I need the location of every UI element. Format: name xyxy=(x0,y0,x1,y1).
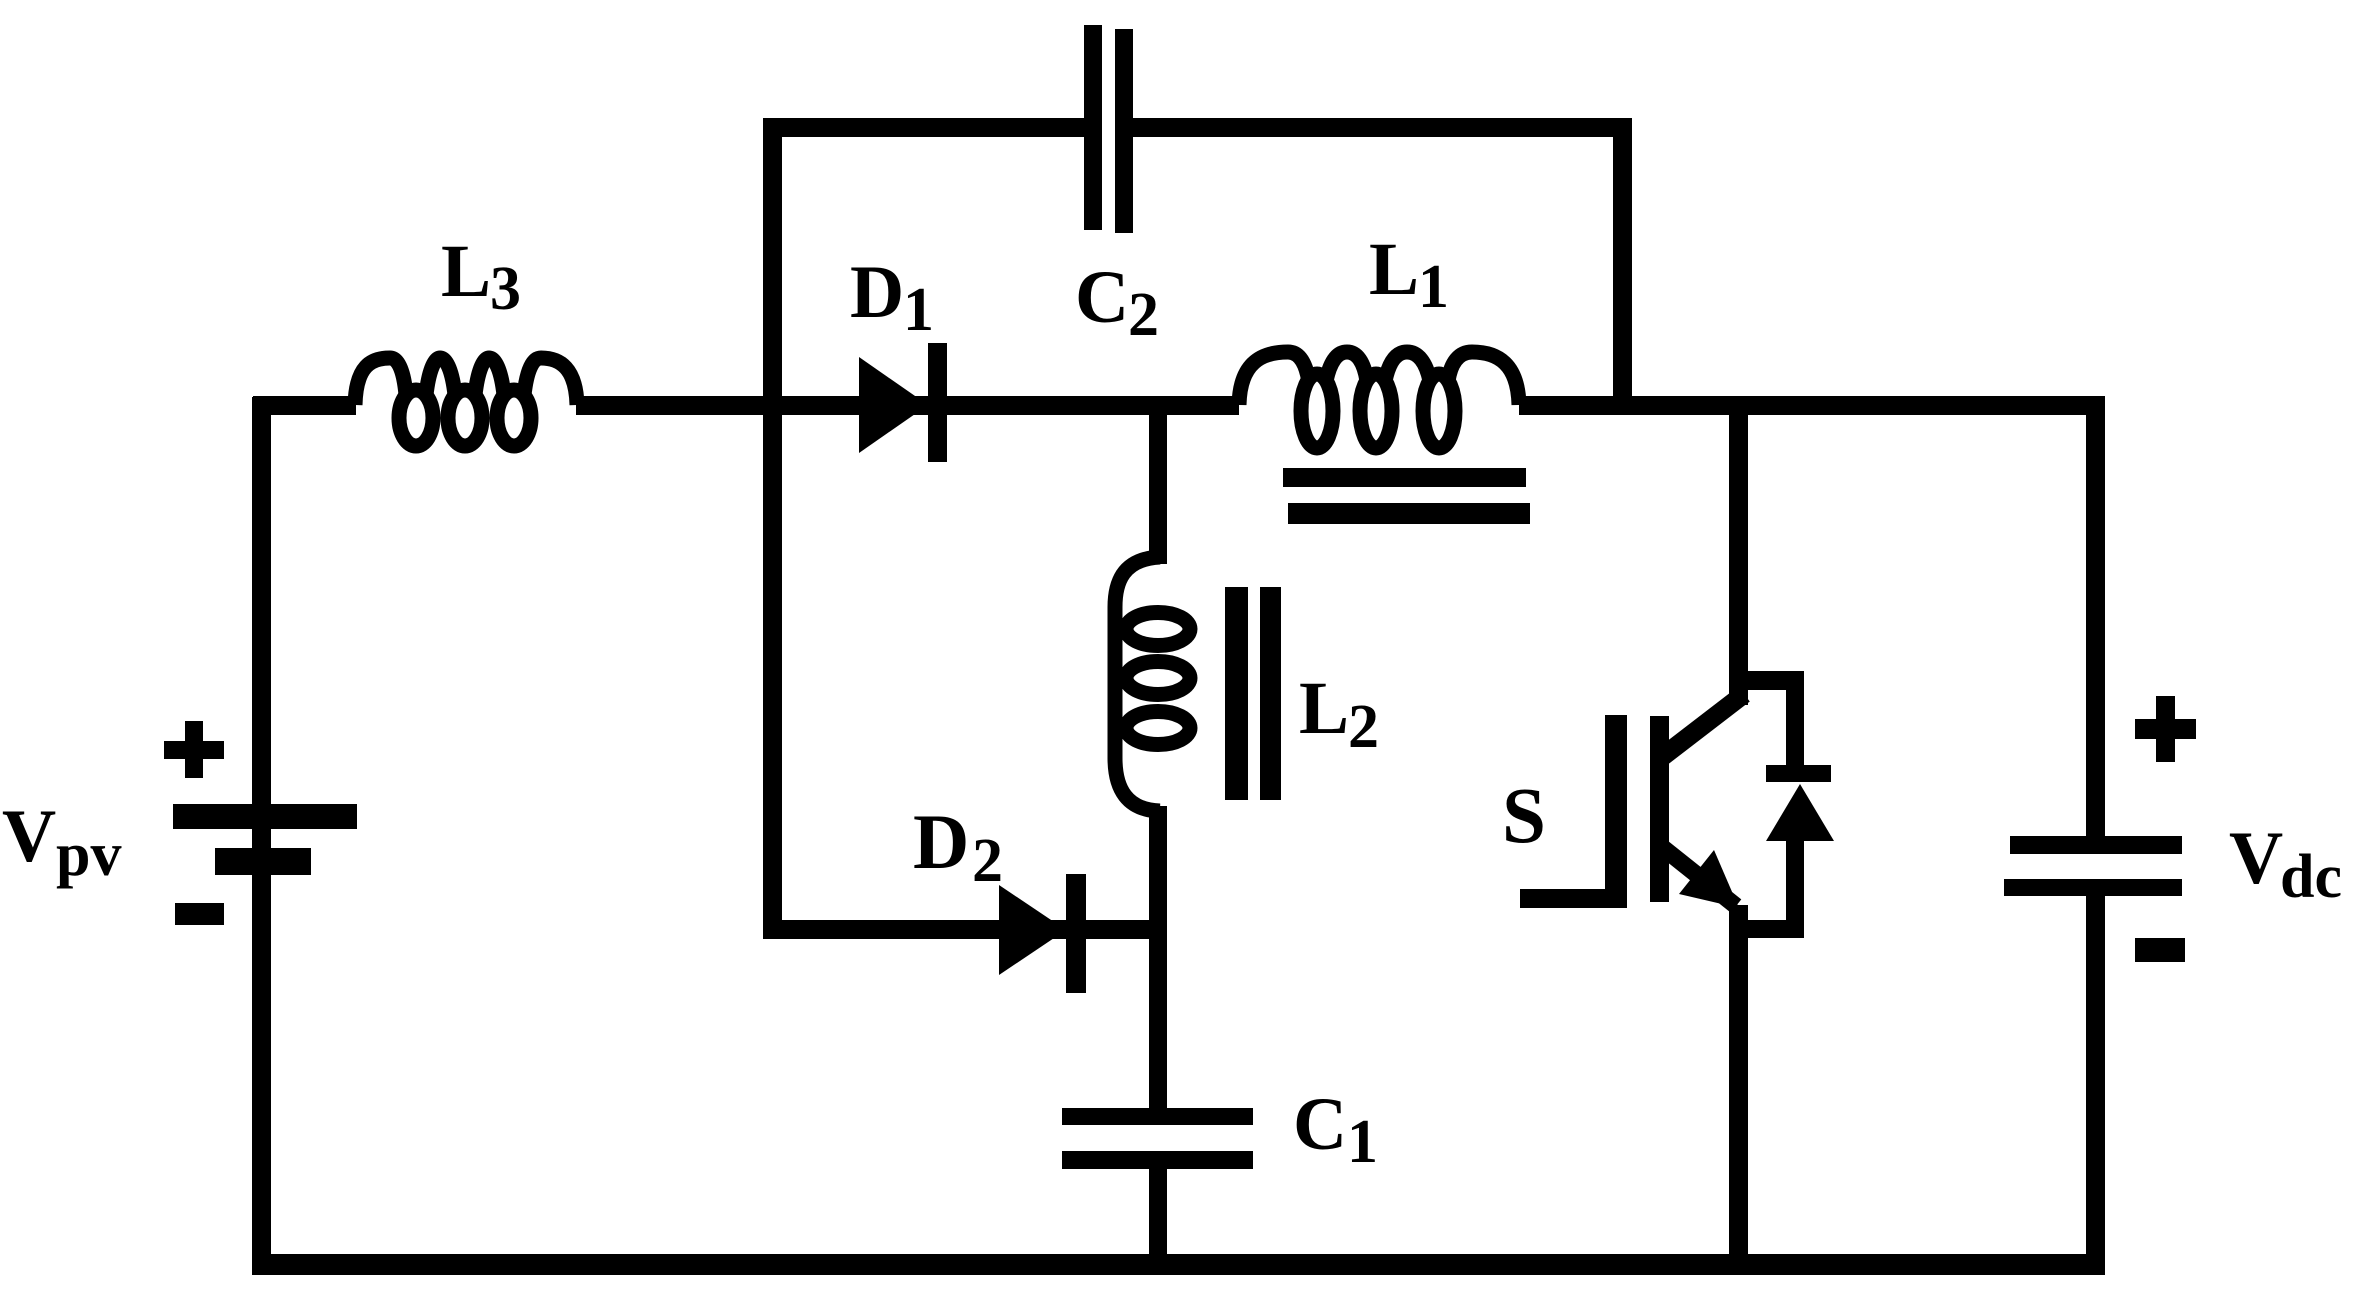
wire: emitter vertical to bottom rail xyxy=(1729,905,1748,1275)
minus sign Vpv xyxy=(175,903,224,925)
svg-text:V: V xyxy=(2229,817,2283,900)
label L3 xyxy=(441,230,521,323)
wire: main rail segment L3 to L1 xyxy=(576,396,1239,415)
svg-text:L: L xyxy=(1369,228,1419,311)
label Vdc xyxy=(2229,817,2342,911)
svg-text:2: 2 xyxy=(1348,693,1379,761)
wire: bottom rail xyxy=(252,1254,2105,1275)
svg-text:L: L xyxy=(1299,667,1349,750)
wire: main rail segment Vpv to L3 xyxy=(253,396,356,415)
label L1 xyxy=(1369,228,1449,321)
diode D2 xyxy=(999,874,1086,993)
svg-text:D: D xyxy=(850,251,904,334)
wire: gate lead xyxy=(1520,889,1627,908)
wire: C1 bottom lead xyxy=(1149,1169,1167,1275)
label D1 xyxy=(850,251,934,344)
plus sign Vpv xyxy=(164,721,224,778)
wire: main rail segment L1 to right vertical xyxy=(1519,396,2104,415)
label C1 xyxy=(1293,1083,1378,1176)
wire: right vertical lower (Vdc to bottom rail) xyxy=(2086,896,2105,1275)
wire: right branch vertical (top rail to main rail) xyxy=(1613,118,1632,415)
minus sign Vdc xyxy=(2135,938,2185,962)
svg-text:1: 1 xyxy=(1418,253,1449,321)
anti-parallel diode of S xyxy=(1738,671,1834,938)
voltage source Vpv xyxy=(173,397,357,1275)
label C2 xyxy=(1075,256,1159,349)
svg-text:L: L xyxy=(441,230,491,313)
wire: left branch vertical (top rail to D2 rail) xyxy=(763,118,782,939)
wire: bottom jog xyxy=(1738,920,1804,938)
label Vpv xyxy=(2,795,121,889)
wire: top jog xyxy=(1738,671,1804,690)
plus sign Vdc xyxy=(2135,696,2196,762)
svg-text:dc: dc xyxy=(2280,843,2342,911)
inductor L3 xyxy=(355,358,577,446)
wire: center vertical from L2 down to D2 junction and C1 xyxy=(1149,806,1167,1108)
svg-text:3: 3 xyxy=(490,255,521,323)
svg-text:1: 1 xyxy=(903,276,934,344)
switch S (IGBT) xyxy=(1520,405,1748,1275)
svg-text:1: 1 xyxy=(1347,1108,1378,1176)
capacitor Vdc xyxy=(2004,836,2182,896)
diode cathode bar xyxy=(1766,765,1831,782)
svg-text:C: C xyxy=(1293,1083,1347,1166)
inductor L2 (vertical) xyxy=(1115,557,1190,811)
svg-text:S: S xyxy=(1502,773,1546,860)
wire: diode upper lead xyxy=(1786,671,1804,770)
wire: D2 rail xyxy=(763,920,1167,939)
wire: collector vertical to main rail xyxy=(1729,405,1748,705)
gate bar xyxy=(1605,715,1627,908)
emitter arrow head xyxy=(1679,850,1739,908)
wire: center vertical from main rail down to L2 xyxy=(1149,400,1167,564)
svg-text:C: C xyxy=(1075,256,1129,339)
wire: top rail left segment (C2 branch) xyxy=(763,118,1092,137)
svg-text:pv: pv xyxy=(56,821,121,889)
inductor L1 xyxy=(1239,352,1519,448)
svg-text:D: D xyxy=(913,798,969,885)
battery long plate xyxy=(173,804,357,829)
diode D1 xyxy=(859,343,947,462)
body bar xyxy=(1650,716,1669,902)
emitter diagonal xyxy=(1662,847,1736,906)
battery short plate xyxy=(215,848,311,875)
label L2 xyxy=(1299,667,1379,761)
wire: right vertical upper (main rail to Vdc) xyxy=(2086,396,2105,836)
svg-text:V: V xyxy=(2,795,56,878)
core bars of coupled inductor L1 xyxy=(1283,468,1530,524)
core bars of coupled inductor L2 xyxy=(1225,587,1281,800)
wire: left vertical (main rail to bottom rail) xyxy=(252,397,271,1275)
collector diagonal xyxy=(1662,694,1744,757)
svg-text:2: 2 xyxy=(1128,281,1159,349)
capacitor C1 xyxy=(1062,1108,1253,1169)
svg-text:2: 2 xyxy=(972,827,1003,895)
wire: top rail right segment (C2 branch) xyxy=(1125,118,1631,137)
label D2 xyxy=(913,798,1003,895)
capacitor C2 xyxy=(1084,25,1133,233)
wire: diode lower lead xyxy=(1786,838,1804,938)
diode triangle (up) xyxy=(1766,784,1834,841)
